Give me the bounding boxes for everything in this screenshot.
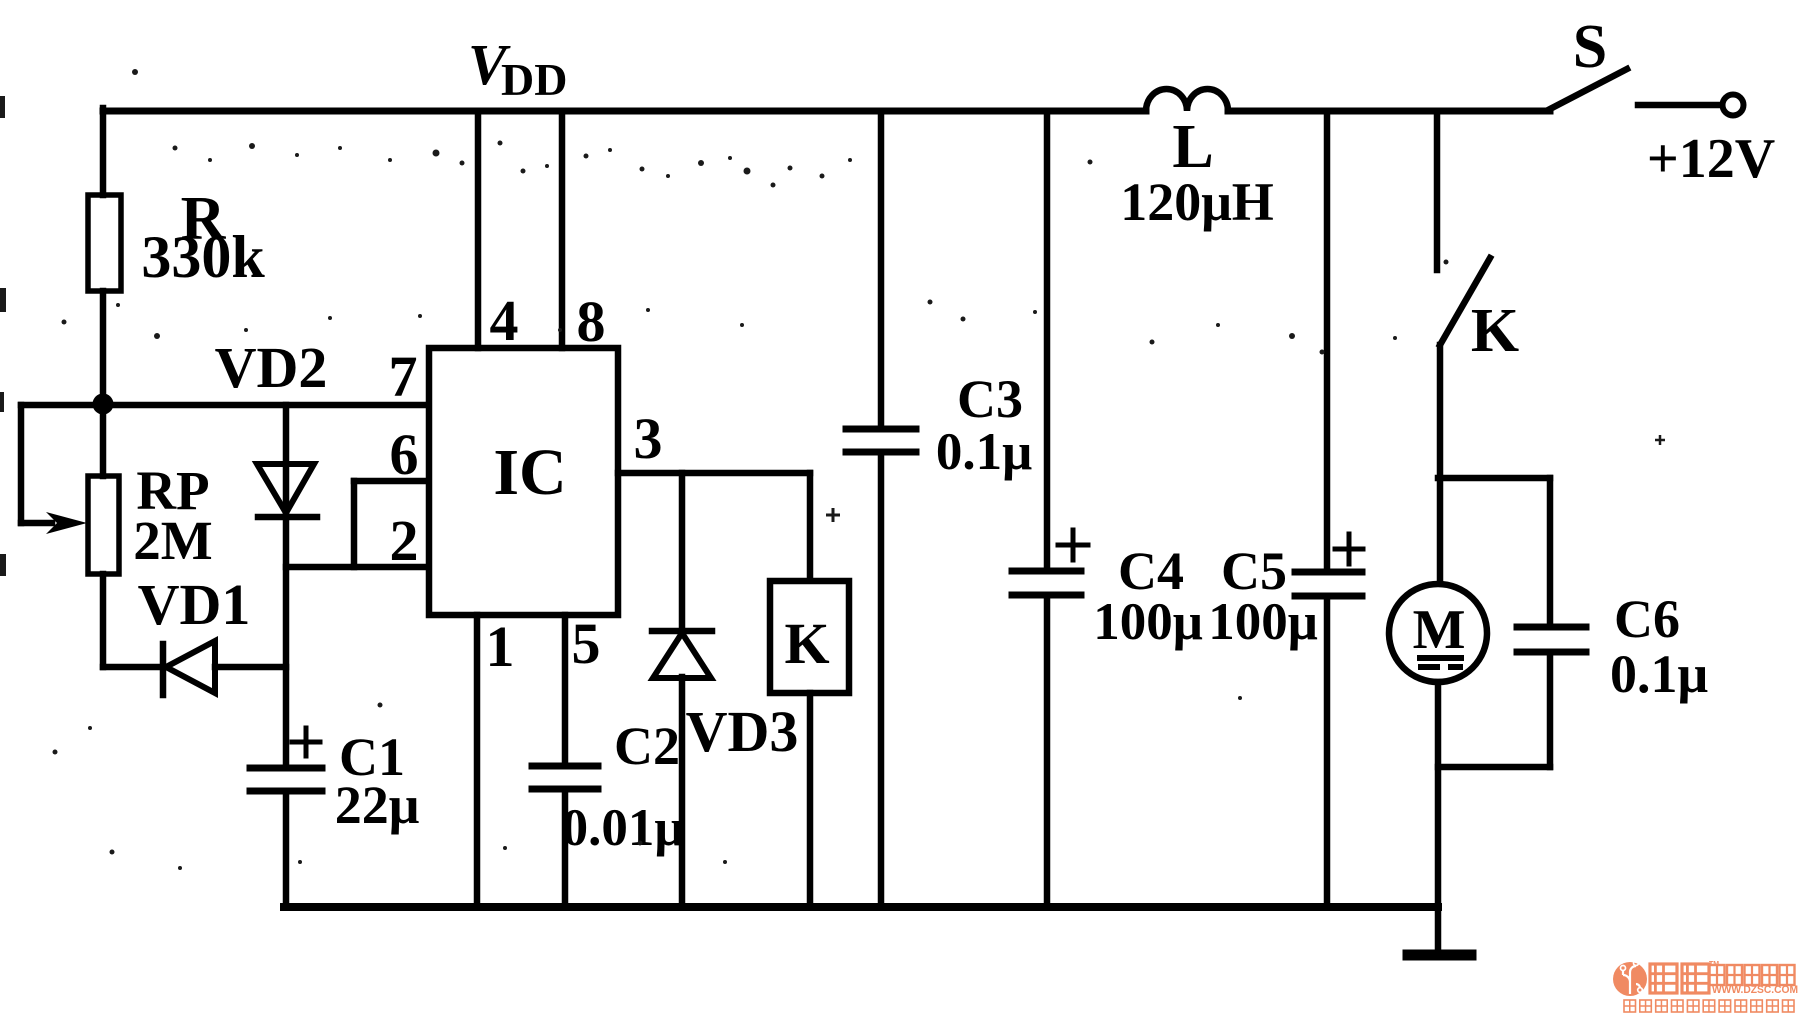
wire node row pin7	[21, 402, 429, 409]
wire RP bottom	[100, 574, 107, 667]
svg-text:100μ: 100μ	[1208, 593, 1318, 651]
motor M body	[1389, 584, 1487, 682]
svg-text:0.01μ: 0.01μ	[562, 799, 685, 857]
capacitor C3 plates	[846, 429, 916, 452]
diode VD2 cathode bar	[258, 514, 317, 521]
diode VD2 vertical wire	[283, 405, 290, 768]
switch K blade	[1440, 258, 1490, 345]
wire top VDD rail left section	[103, 108, 1146, 115]
wire C6 bottom	[1547, 652, 1554, 767]
svg-text:M: M	[1413, 599, 1466, 661]
scan noise specks	[0, 69, 1665, 870]
resistor R	[88, 195, 121, 291]
wire node to RP top	[100, 405, 107, 476]
watermark circle icon	[1613, 962, 1647, 996]
wire C1 bottom	[283, 791, 290, 907]
wire C4 bottom	[1044, 595, 1051, 907]
svg-text:K: K	[784, 611, 829, 676]
svg-text:7: 7	[389, 344, 418, 409]
wire arrow line to RP	[21, 520, 52, 527]
svg-text:DD: DD	[501, 54, 567, 105]
watermark CJK char blocks	[1624, 964, 1795, 1012]
svg-text:VD2: VD2	[215, 335, 328, 400]
svg-text:C2: C2	[614, 716, 680, 776]
svg-text:C5: C5	[1221, 541, 1287, 601]
svg-text:L: L	[1172, 113, 1213, 181]
wire K switch to motor	[1437, 345, 1444, 584]
svg-text:330k: 330k	[141, 224, 265, 290]
wire pin3 row	[618, 470, 810, 477]
svg-text:C4: C4	[1118, 541, 1184, 601]
diode VD3 cathode bar	[652, 628, 712, 635]
svg-text:TM: TM	[1709, 961, 1719, 968]
wire C5 bottom	[1324, 596, 1331, 907]
wire VD3 top	[679, 473, 686, 631]
wire pin2 row	[286, 564, 429, 571]
wire +12V terminal lead	[1638, 102, 1721, 109]
svg-text:120μH: 120μH	[1120, 172, 1274, 232]
wire C3 branch top	[878, 111, 885, 429]
wire link to C6 top	[1438, 475, 1550, 482]
svg-text:6: 6	[390, 422, 419, 487]
capacitor C4 plates	[1012, 571, 1081, 595]
arrowhead into RP	[46, 512, 87, 534]
svg-text:8: 8	[577, 289, 606, 354]
diode VD2 triangle	[257, 464, 314, 513]
svg-text:3: 3	[634, 406, 663, 471]
svg-text:VD3: VD3	[686, 699, 799, 764]
svg-text:1: 1	[486, 614, 515, 679]
wire pin4	[475, 111, 482, 348]
capacitor C5 plates	[1295, 572, 1362, 596]
switch S blade	[1550, 69, 1627, 109]
potentiometer RP	[88, 476, 119, 574]
svg-text:+12V: +12V	[1647, 128, 1775, 190]
switch S terminal circle	[1723, 95, 1744, 116]
relay coil K box	[770, 581, 849, 693]
svg-text:100μ: 100μ	[1093, 593, 1203, 651]
wire C6 branch	[1547, 478, 1554, 627]
wire bracket left down	[18, 405, 25, 523]
motor DC bars	[1417, 658, 1464, 667]
diode VD3 triangle	[653, 633, 711, 678]
wire C3 bottom	[878, 452, 885, 907]
wire pin5 down to C2	[562, 615, 569, 766]
plus sign C1	[292, 728, 320, 756]
svg-text:S: S	[1573, 13, 1607, 81]
wire pin8	[559, 111, 566, 348]
svg-text:K: K	[1471, 297, 1519, 365]
wire C5 branch top	[1324, 111, 1331, 572]
plus sign C4	[1058, 530, 1088, 560]
diode VD1 cathode bar	[160, 644, 167, 695]
IC U1 box	[429, 348, 618, 615]
wire top VDD rail right section	[1228, 108, 1550, 115]
wire C4 branch top	[1044, 111, 1051, 571]
ground symbol	[1408, 950, 1471, 961]
svg-text:5: 5	[572, 611, 601, 676]
svg-text:IC: IC	[493, 436, 566, 509]
svg-text:22μ: 22μ	[335, 775, 420, 835]
wire VD1 row left	[103, 664, 163, 671]
plus sign C5	[1335, 534, 1363, 564]
svg-text:2: 2	[390, 508, 419, 573]
capacitor C2 plates	[532, 766, 598, 789]
wire pin1 down	[474, 615, 481, 907]
svg-text:C6: C6	[1614, 589, 1680, 649]
wire bottom ground rail	[284, 903, 1438, 911]
capacitor C6 plates	[1517, 627, 1586, 652]
wire bracket pin6-pin2	[351, 481, 358, 567]
svg-text:C3: C3	[957, 369, 1023, 429]
wire C6 to motor bottom	[1438, 764, 1550, 771]
inductor L	[1146, 89, 1228, 111]
svg-text:WWW.DZSC.COM: WWW.DZSC.COM	[1712, 984, 1798, 996]
wire left drop to R	[100, 108, 107, 195]
capacitor C1 plates	[250, 768, 322, 791]
svg-text:2M: 2M	[133, 510, 212, 571]
wire motor bottom to ground	[1435, 682, 1442, 952]
svg-text:VD1: VD1	[138, 572, 251, 637]
diode VD1 triangle	[166, 641, 215, 693]
wire VD3 bottom	[679, 677, 686, 907]
wire R bottom to node	[100, 291, 107, 405]
wire VD1 row right	[215, 664, 286, 671]
svg-text:0.1μ: 0.1μ	[936, 423, 1032, 481]
node A junction dot	[93, 394, 114, 415]
wire K switch top	[1434, 111, 1441, 270]
wire C2 bottom	[562, 789, 569, 907]
svg-text:4: 4	[490, 288, 519, 353]
wire pin3 down to K coil	[807, 473, 814, 581]
wire pin6 stub	[354, 478, 429, 485]
svg-text:0.1μ: 0.1μ	[1610, 644, 1708, 704]
watermark logo 维库电子市场网	[1613, 961, 1798, 1013]
wire K coil bottom	[807, 693, 814, 907]
